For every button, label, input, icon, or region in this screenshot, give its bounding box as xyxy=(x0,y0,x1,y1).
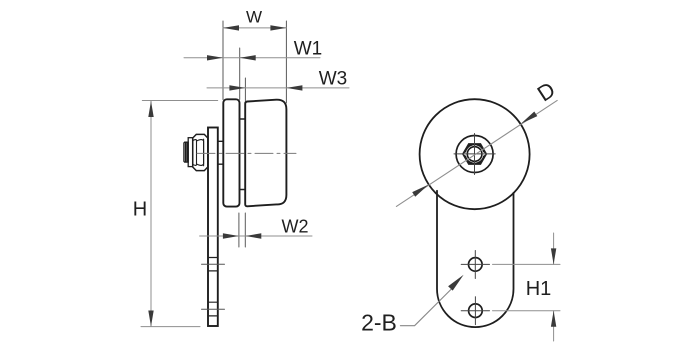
washer collar xyxy=(188,138,193,167)
dimension D arrow upper-right xyxy=(521,112,538,124)
bracket plate (side view strip) xyxy=(208,128,218,327)
nut chamfer circle (white core punch) xyxy=(466,145,483,162)
svg-text:W3: W3 xyxy=(319,69,348,90)
dimension H1 line lower segment xyxy=(553,311,555,341)
H top extension line xyxy=(142,100,217,102)
lower hole horizontal centerline xyxy=(461,310,489,312)
dimension H1 arrow bottom xyxy=(551,311,556,327)
dimension W1 arrow right xyxy=(240,55,256,60)
H1 lower extension line xyxy=(493,310,561,312)
nut vertical centerline xyxy=(474,134,476,175)
horizontal centerline of roller axis xyxy=(197,152,296,154)
hub between spacer and roller xyxy=(240,119,246,190)
bolt threaded end xyxy=(184,142,188,162)
dimension H1 line upper segment xyxy=(553,233,555,264)
W2 extension line left (x=238.9) xyxy=(238,213,240,247)
dimension W1 line xyxy=(184,57,320,59)
dimension W arrow right xyxy=(270,25,286,30)
lower hole vertical centerline xyxy=(474,297,476,325)
roller (side view) xyxy=(245,100,286,207)
spacer hub through plate xyxy=(218,141,224,164)
W2 extension line right (x=245.3) xyxy=(244,213,246,247)
dimension W2 arrow right xyxy=(245,233,261,238)
dimension W2 arrow left xyxy=(223,233,239,238)
nut white notch right vertex xyxy=(480,150,486,157)
dimension W line xyxy=(223,27,286,29)
svg-text:W: W xyxy=(246,8,262,27)
dimension H arrow top xyxy=(148,101,153,117)
svg-text:W2: W2 xyxy=(282,217,309,237)
hole 1 edge lines on strip xyxy=(208,258,218,271)
svg-text:2-B: 2-B xyxy=(361,310,397,336)
hole 2 edge lines on strip xyxy=(208,302,218,316)
dimension D arrow lower-left xyxy=(412,185,429,197)
upper hole vertical centerline xyxy=(474,251,476,279)
H bottom extension line xyxy=(141,326,200,328)
roller outer circle xyxy=(420,99,530,209)
hex nut outline xyxy=(463,144,487,165)
svg-text:W1: W1 xyxy=(294,39,323,60)
dimension H line xyxy=(150,101,152,327)
dimension W1 arrow left xyxy=(207,55,223,60)
extension line for W1 right (x=239.7) xyxy=(239,48,241,100)
dimension W3 line xyxy=(207,87,349,89)
dimension W arrow left xyxy=(223,25,239,30)
bolt hole circle xyxy=(467,147,482,162)
lower hole B xyxy=(469,304,483,318)
hex nut (side view) xyxy=(193,134,208,170)
dimension W3 arrow left xyxy=(229,85,245,90)
svg-text:H1: H1 xyxy=(526,278,552,300)
upper hole B xyxy=(469,258,483,272)
leader line for 2-B xyxy=(400,288,452,325)
spacer disc (side view) xyxy=(223,99,239,206)
extension line for W3 left (x=245.4) xyxy=(244,78,246,101)
nut horizontal centerline xyxy=(454,153,495,155)
dimension H arrow bottom xyxy=(148,311,153,327)
hex nut (front view, filled ring) xyxy=(463,144,487,165)
extension line A (x=223) xyxy=(222,21,224,100)
H1 upper extension line xyxy=(493,263,561,265)
dimension H1 arrow top xyxy=(551,248,556,264)
leader arrow 2-B xyxy=(448,275,464,291)
bracket plate (front view) xyxy=(437,191,514,327)
upper hole horizontal centerline xyxy=(461,263,489,265)
hub circle xyxy=(456,136,493,173)
svg-text:H: H xyxy=(133,199,147,221)
hole 2 centerline (side) xyxy=(202,308,225,310)
dimension D diagonal line xyxy=(396,100,557,206)
nut white notch left vertex xyxy=(463,150,469,157)
extension line B (x=286.4) xyxy=(285,21,287,103)
dimension W2 line xyxy=(200,235,312,237)
hole 1 centerline (side) xyxy=(202,263,225,265)
dimension W3 arrow right xyxy=(286,85,302,90)
